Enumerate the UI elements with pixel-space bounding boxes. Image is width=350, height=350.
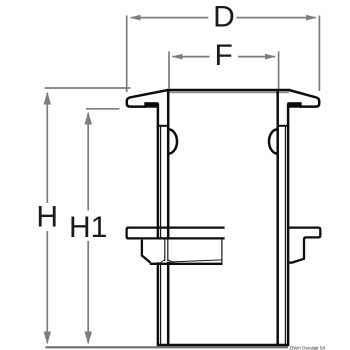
right nut tab external profile <box>288 228 320 263</box>
arrowhead H1 down <box>85 332 93 345</box>
flange top flat edge <box>167 89 290 92</box>
washer left edge <box>127 228 129 239</box>
dimension F extension line left <box>168 51 170 88</box>
left wall outer line lower <box>157 262 160 344</box>
flange right slope and edge and underside with lip <box>289 90 319 107</box>
right wall outer line <box>287 103 290 344</box>
washer top line <box>127 226 225 228</box>
mounting surface gray line under flange <box>169 91 289 93</box>
svg-text:D: D <box>213 0 235 33</box>
left thread root thin line upper <box>160 127 162 240</box>
dimension D line right segment <box>236 17 315 19</box>
washer bottom line <box>127 237 225 239</box>
hull baseline gray <box>46 346 289 348</box>
left wall inner bore line upper <box>167 90 170 240</box>
arrowhead H up <box>44 92 51 105</box>
dimension H extension line top <box>45 87 131 89</box>
dimension F line left segment <box>173 56 210 58</box>
nut section centerline edge <box>221 238 223 263</box>
dimension H1 extension line top <box>86 108 120 110</box>
arrowhead H down <box>44 332 51 345</box>
right thread root thin line <box>284 127 286 345</box>
flange left slope and edge and underside with lip <box>127 90 168 107</box>
flange left lip bar <box>144 102 158 108</box>
dimension H1 line upper segment <box>87 113 89 211</box>
nut bottom line <box>150 263 223 265</box>
dimension F extension line right <box>278 51 280 89</box>
arrowhead F left <box>172 54 183 60</box>
svg-text:H: H <box>36 200 58 233</box>
right wall inner bore line <box>276 90 279 344</box>
dimension H1 line lower segment <box>87 241 89 343</box>
pipe bottom rim <box>157 344 290 347</box>
stem bore thin line inside nut <box>167 240 169 262</box>
dimension F line right segment <box>238 56 275 58</box>
left thread root thin line lower <box>160 263 162 345</box>
dimension D line left segment <box>131 17 208 19</box>
dimension H line upper segment <box>46 93 48 203</box>
right thread bump <box>269 129 277 154</box>
left wall outer line upper <box>157 103 160 239</box>
arrowhead D right <box>306 15 317 21</box>
left rung neck-thread transition <box>157 125 170 127</box>
stem base spread diagonal left <box>160 260 165 263</box>
dimension D extension line right <box>318 16 320 92</box>
dimension H line lower segment <box>46 231 48 343</box>
svg-text:DWH Osculati Srl: DWH Osculati Srl <box>290 346 325 350</box>
dimension D extension line left <box>126 16 128 93</box>
arrowhead F right <box>265 54 276 60</box>
stem base spread diagonal right <box>168 260 175 263</box>
stem thin line inside nut <box>164 240 166 262</box>
svg-text:F: F <box>215 39 233 72</box>
left wall inner bore line lower <box>167 262 170 344</box>
flange right lip bar <box>288 102 302 108</box>
left thread bump <box>169 129 177 154</box>
nut left edge in section <box>142 240 151 263</box>
arrowhead H1 up <box>85 112 93 125</box>
arrowhead D left <box>130 15 141 21</box>
right rung neck-thread transition <box>277 125 290 127</box>
svg-text:H1: H1 <box>69 211 107 244</box>
nut bottom cone thin line <box>169 260 222 262</box>
